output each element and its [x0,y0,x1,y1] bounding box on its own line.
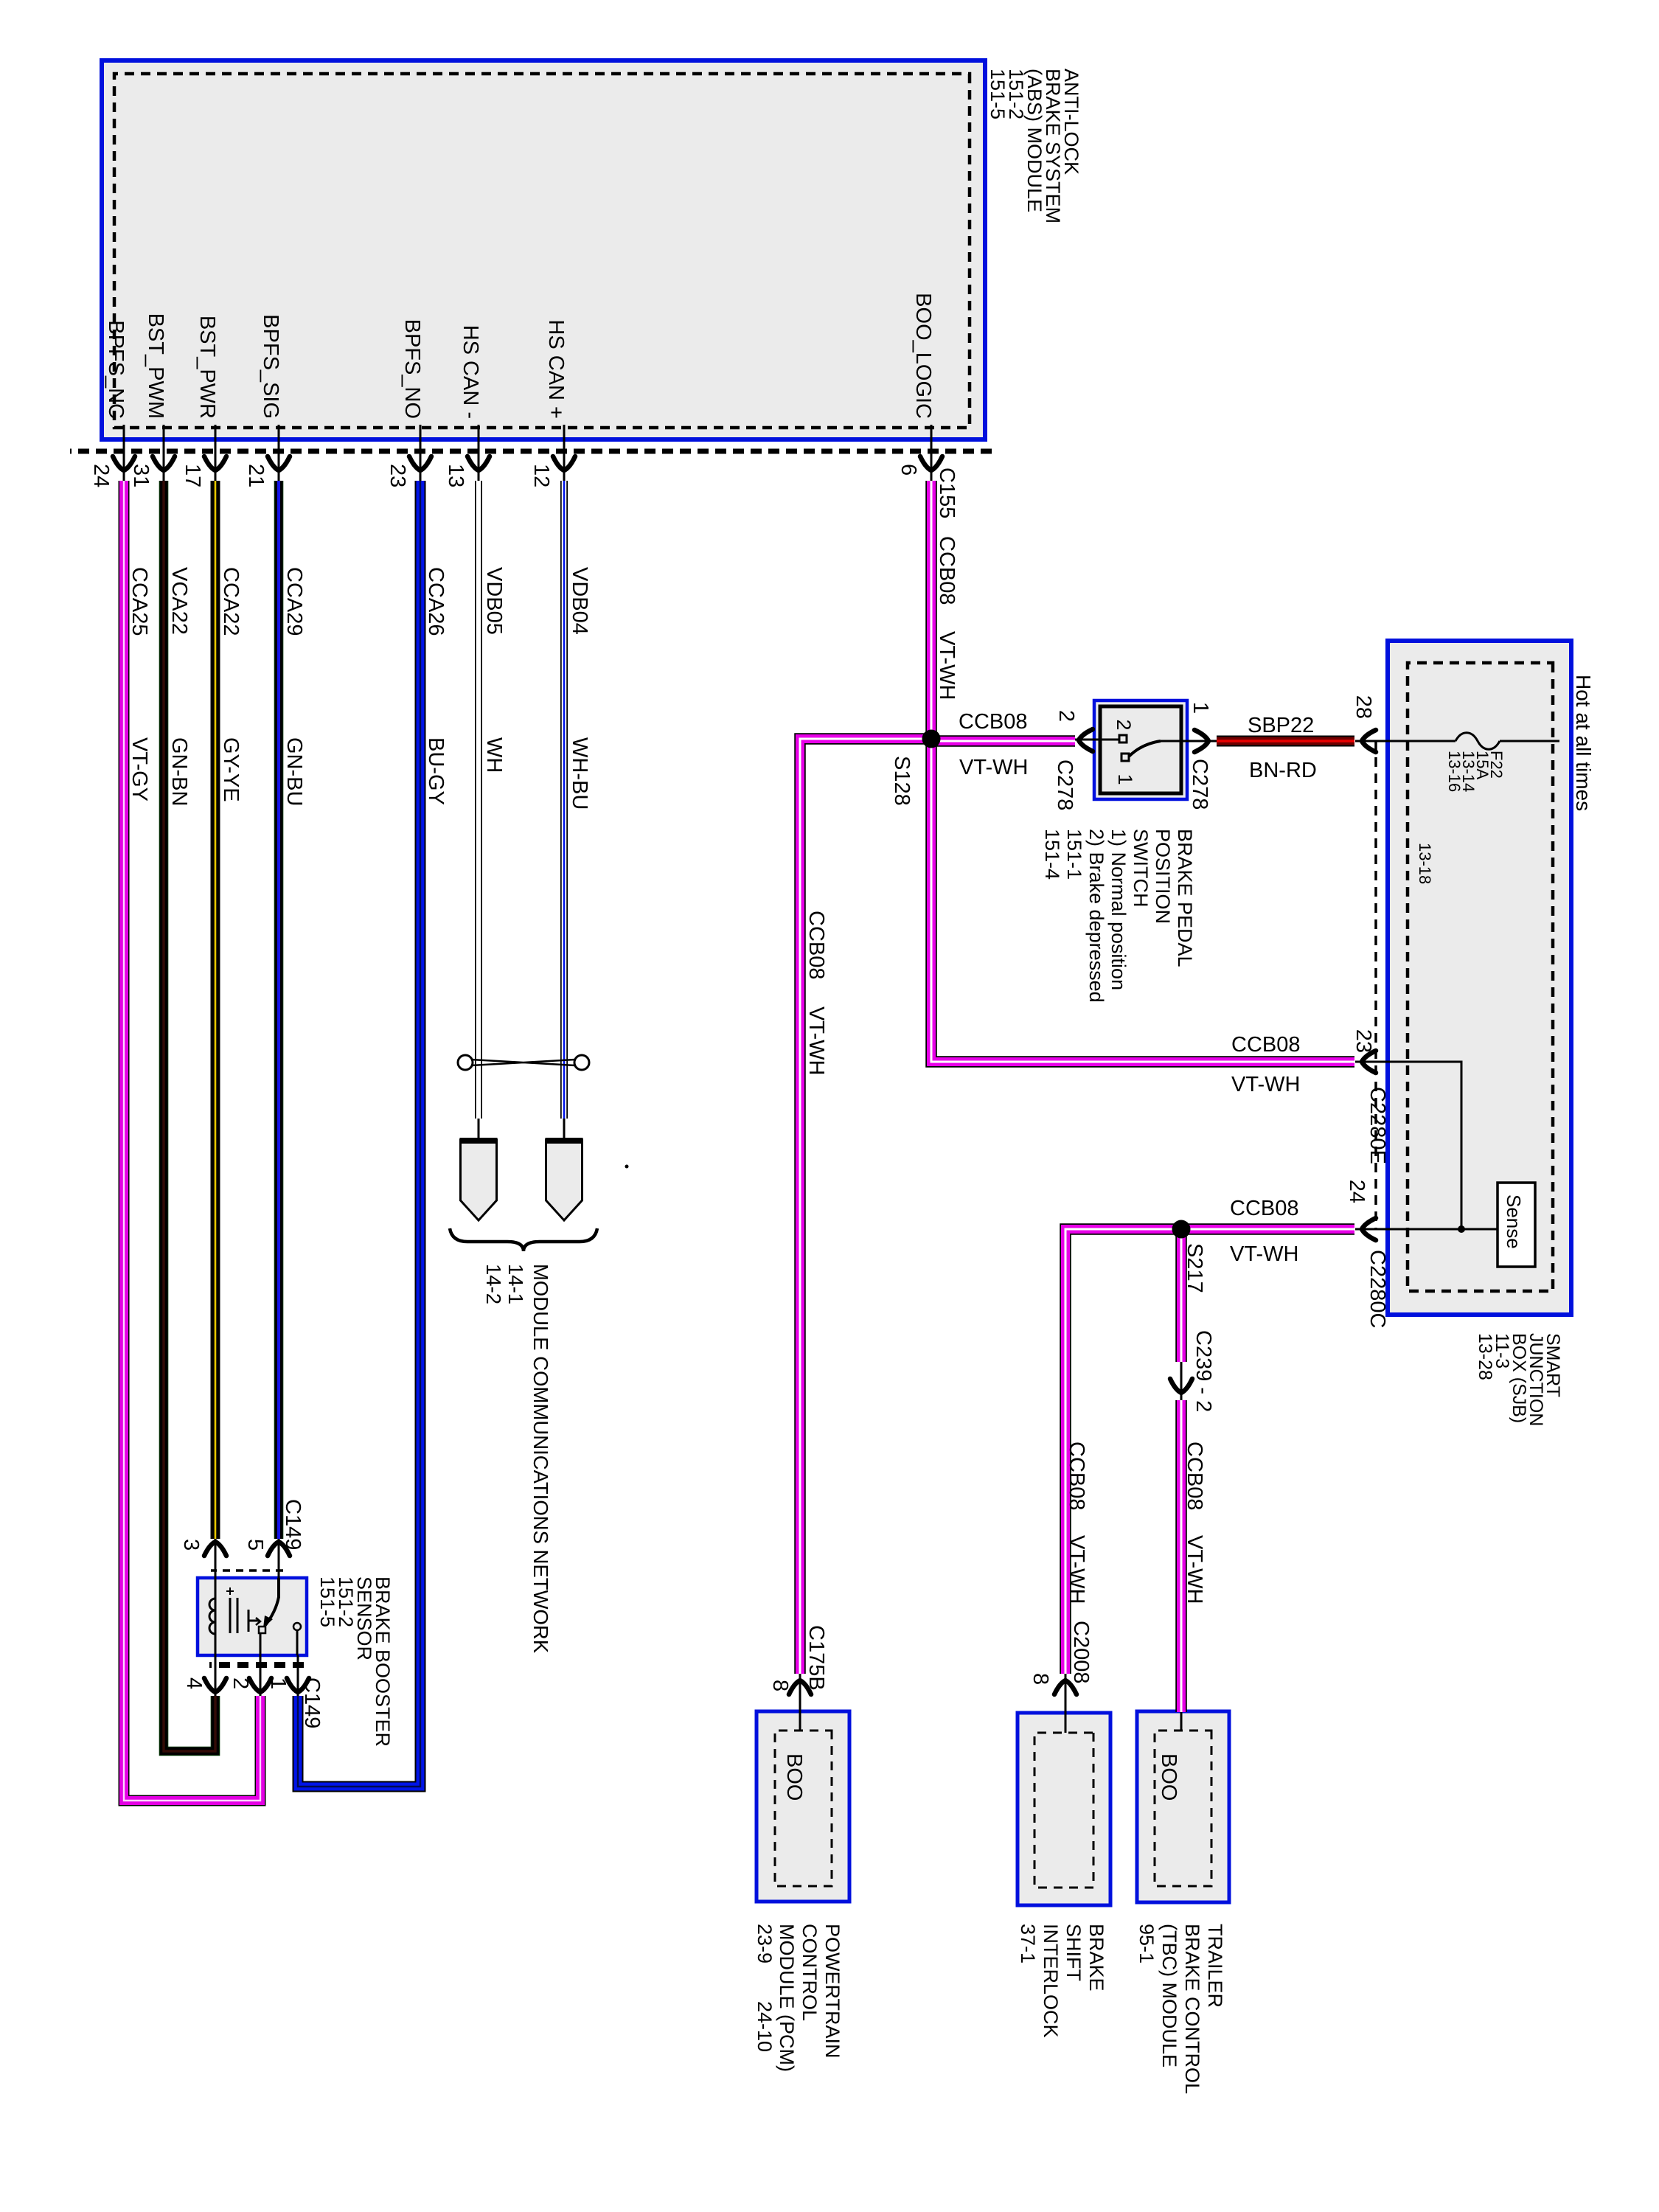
svg-text:BRAKE PEDAL: BRAKE PEDAL [1174,829,1196,967]
svg-text:CCB08: CCB08 [959,710,1028,734]
svg-text:6: 6 [897,464,920,476]
svg-text:2: 2 [229,1677,252,1689]
svg-text:BST_PWR: BST_PWR [195,316,219,419]
svg-text:HS CAN +: HS CAN + [544,319,568,419]
svg-text:2: 2 [1113,719,1135,730]
svg-text:CCB08: CCB08 [1230,1197,1299,1220]
svg-text:2) Brake depressed: 2) Brake depressed [1085,829,1107,1003]
svg-text:C2008: C2008 [1069,1621,1093,1683]
svg-text:(TBC) MODULE: (TBC) MODULE [1158,1924,1180,2067]
svg-text:HS CAN -: HS CAN - [459,325,482,419]
svg-text:C2280C: C2280C [1366,1250,1389,1328]
svg-text:BU-GY: BU-GY [424,737,448,805]
svg-text:2: 2 [1054,710,1078,722]
svg-text:VT-WH: VT-WH [1231,1073,1300,1096]
svg-text:12: 12 [529,464,553,487]
svg-text:13-18: 13-18 [1416,843,1434,884]
svg-text:28: 28 [1352,695,1375,719]
svg-text:14-1: 14-1 [504,1264,527,1304]
svg-text:95-1: 95-1 [1135,1924,1158,1964]
svg-text:17: 17 [181,464,204,487]
svg-text:GN-BU: GN-BU [282,737,306,806]
svg-text:BPFS_SIG: BPFS_SIG [259,314,282,419]
svg-text:CONTROL: CONTROL [799,1924,821,2021]
svg-text:24: 24 [1345,1180,1368,1203]
svg-text:1: 1 [266,1677,290,1689]
svg-text:Sense: Sense [1503,1194,1525,1249]
svg-text:BPFS_NC: BPFS_NC [104,320,128,419]
svg-text:GN-BN: GN-BN [167,737,191,806]
svg-text:CCA22: CCA22 [219,567,243,636]
svg-text:151-5: 151-5 [987,69,1009,119]
svg-text:13-28: 13-28 [1475,1333,1495,1380]
svg-text:BN-RD: BN-RD [1249,759,1317,782]
svg-text:151-1: 151-1 [1063,829,1085,880]
svg-text:GY-YE: GY-YE [219,737,243,802]
svg-text:151-4: 151-4 [1041,829,1063,880]
svg-text:VT-WH: VT-WH [804,1006,828,1075]
svg-text:31: 31 [129,464,153,487]
svg-text:VT-WH: VT-WH [1230,1242,1298,1266]
svg-text:BOO_LOGIC: BOO_LOGIC [911,293,935,419]
svg-text:SBP22: SBP22 [1248,714,1314,737]
svg-text:14-2: 14-2 [482,1264,505,1304]
svg-text:POWERTRAIN: POWERTRAIN [821,1924,844,2059]
svg-text:WH: WH [482,737,506,773]
svg-text:BOO: BOO [1157,1753,1180,1801]
svg-text:13: 13 [444,464,467,487]
svg-text:37-1: 37-1 [1017,1924,1039,1964]
svg-text:13-16: 13-16 [1445,751,1464,792]
svg-text:BPFS_NO: BPFS_NO [400,319,424,419]
svg-text:VDB05: VDB05 [482,567,506,635]
svg-text:BOO: BOO [782,1753,806,1801]
svg-text:23-9: 23-9 [754,1924,776,1964]
svg-text:CCA29: CCA29 [282,567,306,636]
svg-text:3: 3 [179,1539,203,1551]
svg-text:C155: C155 [935,467,959,518]
svg-text:MODULE COMMUNICATIONS NETWORK: MODULE COMMUNICATIONS NETWORK [529,1264,552,1654]
svg-text:23: 23 [386,464,409,487]
svg-text:5: 5 [243,1539,267,1551]
svg-text:BRAKE: BRAKE [1085,1924,1107,1992]
svg-text:CCB08: CCB08 [1231,1033,1301,1057]
svg-text:S128: S128 [890,756,914,806]
svg-text:VT-WH: VT-WH [935,631,959,700]
svg-text:CCB08: CCB08 [935,536,959,605]
svg-text:VT-WH: VT-WH [1065,1535,1088,1604]
svg-text:CCB08: CCB08 [1183,1441,1206,1511]
svg-text:CCB08: CCB08 [1065,1441,1088,1511]
svg-text:TRAILER: TRAILER [1204,1924,1226,2008]
svg-text:SHIFT: SHIFT [1062,1924,1085,1981]
svg-text:C278: C278 [1188,759,1211,810]
svg-text:C149: C149 [281,1499,305,1550]
svg-text:21: 21 [244,464,268,487]
svg-text:BST_PWM: BST_PWM [144,313,167,419]
svg-text:CCB08: CCB08 [804,911,828,980]
svg-text:BRAKE CONTROL: BRAKE CONTROL [1181,1924,1203,2094]
svg-text:1: 1 [1189,702,1212,714]
svg-text:MODULE (PCM): MODULE (PCM) [776,1924,798,2072]
svg-text:C278: C278 [1053,759,1077,810]
svg-text:Hot at all times: Hot at all times [1572,675,1595,811]
svg-text:SWITCH: SWITCH [1130,829,1152,907]
svg-text:4: 4 [182,1677,206,1689]
svg-text:C2280E: C2280E [1366,1087,1389,1164]
svg-text:8: 8 [1029,1673,1052,1685]
svg-text:VT-WH: VT-WH [1183,1535,1206,1604]
svg-text:151-5: 151-5 [316,1576,338,1627]
svg-text:C175B: C175B [804,1625,828,1691]
svg-text:WH-BU: WH-BU [568,737,591,810]
svg-text:INTERLOCK: INTERLOCK [1040,1924,1062,2038]
svg-text:VCA22: VCA22 [167,567,191,635]
svg-text:C239 - 2: C239 - 2 [1192,1330,1215,1412]
svg-text:CCA25: CCA25 [128,567,151,636]
svg-text:1) Normal position: 1) Normal position [1107,829,1130,990]
svg-text:S217: S217 [1183,1243,1206,1293]
svg-text:24-10: 24-10 [754,2001,776,2052]
svg-text:23: 23 [1352,1029,1375,1053]
svg-text:C149: C149 [300,1677,324,1728]
svg-text:VT-WH: VT-WH [959,756,1028,779]
svg-text:VDB04: VDB04 [568,567,591,635]
svg-text:1: 1 [1114,773,1136,785]
svg-text:VT-GY: VT-GY [128,737,151,801]
svg-text:CCA26: CCA26 [424,567,448,636]
svg-text:POSITION: POSITION [1152,829,1174,924]
svg-text:8: 8 [768,1680,792,1691]
svg-text:24: 24 [89,464,113,487]
